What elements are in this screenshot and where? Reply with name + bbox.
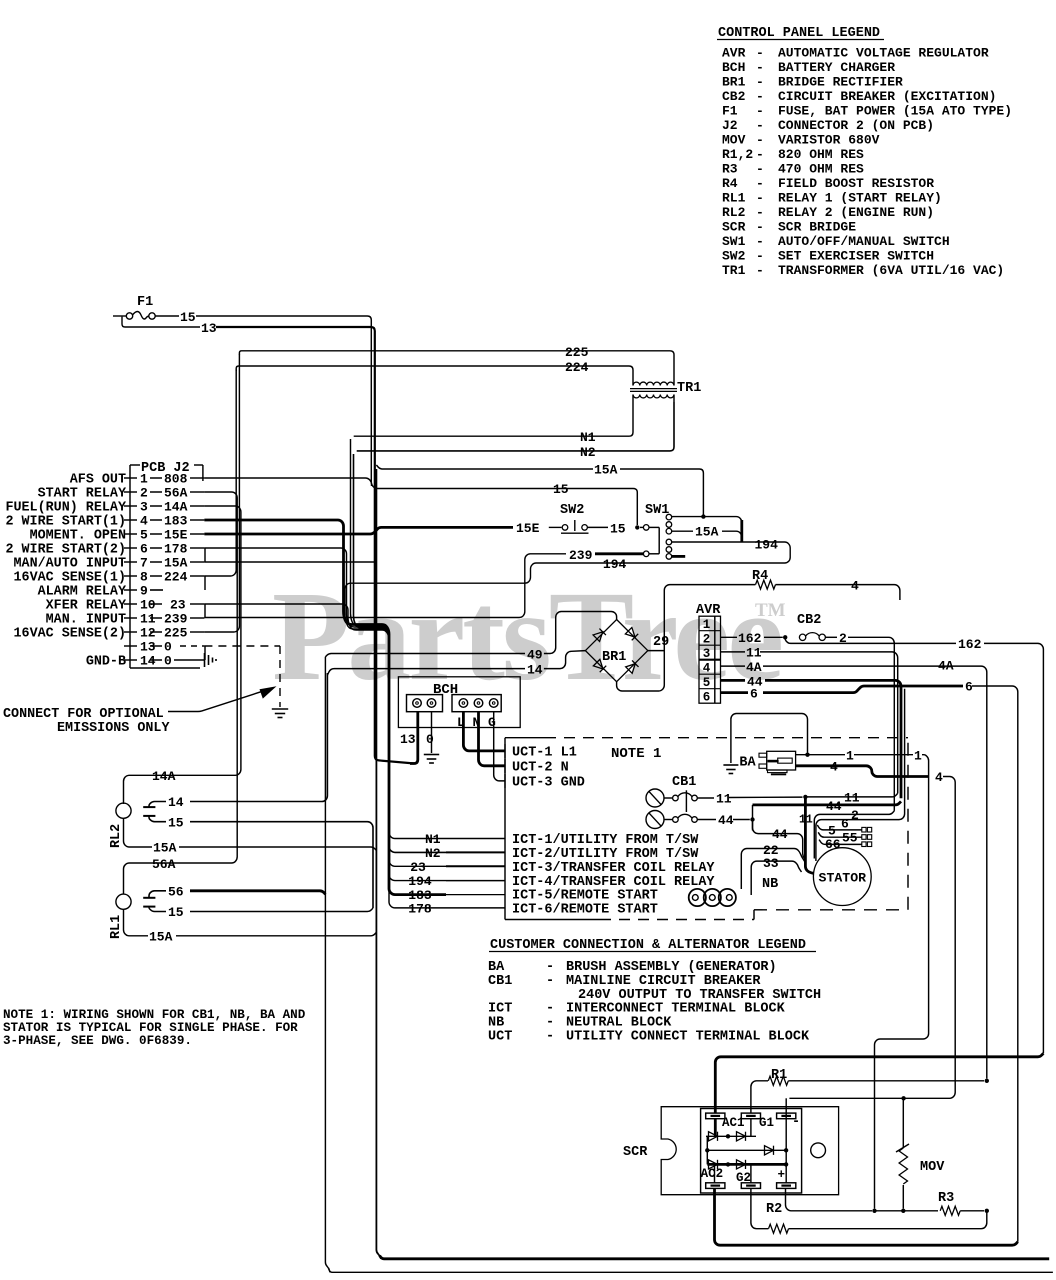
svg-text:SW1: SW1 <box>645 503 669 518</box>
wire 15E thick <box>204 527 513 534</box>
svg-text:UCT-3 GND: UCT-3 GND <box>512 775 585 790</box>
svg-text:1: 1 <box>914 748 922 763</box>
svg-text:NB: NB <box>762 877 778 892</box>
SCR terminals <box>706 1113 725 1119</box>
svg-text:-: - <box>546 1002 554 1017</box>
svg-text:CB1: CB1 <box>488 974 512 989</box>
svg-text:R3: R3 <box>722 162 738 177</box>
svg-text:F1: F1 <box>137 295 153 310</box>
svg-text:820 OHM RES: 820 OHM RES <box>778 147 864 162</box>
svg-text:0: 0 <box>164 640 172 655</box>
wire 56A <box>124 492 238 894</box>
svg-text:-: - <box>756 60 764 75</box>
ground BA <box>723 764 738 766</box>
svg-text:470 OHM RES: 470 OHM RES <box>778 162 864 177</box>
wire 49 <box>325 654 525 657</box>
SCR outer box with notch <box>661 1107 838 1195</box>
svg-text:VARISTOR 680V: VARISTOR 680V <box>778 133 880 148</box>
svg-text:ICT-3/TRANSFER COIL RELAY: ICT-3/TRANSFER COIL RELAY <box>512 861 715 876</box>
svg-text:CONNECT FOR OPTIONAL: CONNECT FOR OPTIONAL <box>3 707 164 722</box>
wire 44 CB1 <box>697 819 716 821</box>
svg-text:14: 14 <box>527 663 543 678</box>
battery charger BCH box <box>398 677 520 728</box>
svg-text:NOTE 1: WIRING SHOWN FOR CB1,: NOTE 1: WIRING SHOWN FOR CB1, NB, BA AND <box>3 1008 306 1022</box>
svg-text:224: 224 <box>565 360 589 375</box>
wire 225 pin12 <box>204 355 239 633</box>
svg-text:11: 11 <box>746 646 762 661</box>
J2 pin pair ties <box>204 548 206 562</box>
svg-text:15E: 15E <box>164 528 188 543</box>
J2 pin rows <box>124 477 137 479</box>
svg-text:-: - <box>756 191 764 206</box>
wire N1 <box>354 402 633 436</box>
wire AC2 thick <box>715 1188 1018 1245</box>
svg-text:4: 4 <box>140 514 148 529</box>
wire 178 <box>204 548 446 908</box>
svg-text:SW2: SW2 <box>560 503 584 518</box>
switch SW2 <box>562 525 568 531</box>
svg-text:-: - <box>756 162 764 177</box>
wire 15A long column thick <box>376 469 381 1259</box>
svg-text:15A: 15A <box>594 463 618 478</box>
svg-text:194: 194 <box>408 874 432 889</box>
svg-text:194: 194 <box>603 557 627 572</box>
svg-text:15E: 15E <box>516 521 540 536</box>
svg-text:13: 13 <box>201 321 217 336</box>
wire 15 RL2 <box>149 816 166 822</box>
svg-text:SCR: SCR <box>722 220 746 235</box>
svg-text:16VAC SENSE(1): 16VAC SENSE(1) <box>14 571 127 586</box>
brush assembly BA <box>767 751 796 770</box>
wire 15A pin7 <box>204 561 376 563</box>
BR1 diode bottom-left <box>593 659 606 672</box>
svg-text:11: 11 <box>140 612 156 627</box>
svg-text:7: 7 <box>140 556 148 571</box>
wire 11 stator drop thick <box>805 797 814 874</box>
wire 13 thick run to BCH <box>216 327 415 764</box>
svg-text:3-PHASE, SEE DWG. 0F6839.: 3-PHASE, SEE DWG. 0F6839. <box>3 1034 192 1048</box>
wire 55 <box>818 832 862 837</box>
svg-text:-: - <box>756 89 764 104</box>
junction 1/R3 <box>872 1209 876 1213</box>
svg-text:RL1: RL1 <box>109 915 124 939</box>
svg-text:-: - <box>756 249 764 264</box>
wire 6 AVR pin6 thick <box>721 691 749 694</box>
svg-text:15: 15 <box>180 310 196 325</box>
wire 4 from BA thick <box>796 766 929 777</box>
svg-text:BA: BA <box>739 756 756 771</box>
svg-text:GND-B: GND-B <box>86 655 126 670</box>
svg-text:-: - <box>756 176 764 191</box>
wire 56 RL1 <box>149 891 166 898</box>
svg-text:CIRCUIT BREAKER (EXCITATION): CIRCUIT BREAKER (EXCITATION) <box>778 89 996 104</box>
svg-text:23: 23 <box>170 598 186 613</box>
svg-text:SW2: SW2 <box>722 249 746 264</box>
svg-text:0: 0 <box>426 732 434 747</box>
wire 14 to BR1 <box>327 669 525 675</box>
svg-text:TM: TM <box>755 600 786 621</box>
svg-text:R4: R4 <box>752 569 768 584</box>
svg-text:-: - <box>546 1030 554 1045</box>
junction R1/4A <box>985 1079 989 1083</box>
fuse F1 <box>113 315 127 317</box>
svg-text:15A: 15A <box>153 841 177 856</box>
wire 808 <box>204 478 371 486</box>
svg-text:-: - <box>546 960 554 975</box>
wire 49/56 long column <box>325 657 330 1273</box>
svg-text:AUTO/OFF/MANUAL SWITCH: AUTO/OFF/MANUAL SWITCH <box>778 234 950 249</box>
UCT ticks <box>504 744 506 758</box>
wire 14 RL2 <box>149 802 166 808</box>
svg-text:4: 4 <box>830 760 838 775</box>
wire 15 RL1 <box>149 907 166 912</box>
svg-text:1: 1 <box>140 472 148 487</box>
wire 5 <box>817 825 862 830</box>
SCR internal diodes <box>714 1119 717 1137</box>
svg-text:6: 6 <box>140 542 148 557</box>
svg-text:3: 3 <box>140 500 148 515</box>
wire 15 from F1 <box>155 315 179 317</box>
svg-text:9: 9 <box>140 584 148 599</box>
svg-text:SW1: SW1 <box>722 234 746 249</box>
wire 14A <box>124 506 241 803</box>
wire 162 AVR pin2 <box>721 636 738 638</box>
svg-text:UCT-2 N: UCT-2 N <box>512 760 569 775</box>
wire AC1 thick <box>715 1053 1043 1113</box>
svg-text:AUTOMATIC VOLTAGE REGULATOR: AUTOMATIC VOLTAGE REGULATOR <box>778 46 989 61</box>
wire 0 dashed pin13 <box>204 645 280 647</box>
svg-text:6: 6 <box>965 680 973 695</box>
wire 15A top <box>376 465 593 469</box>
svg-text:3: 3 <box>703 647 711 661</box>
BCH terminal strip 1 <box>407 695 443 712</box>
breaker CB1 pole 1 <box>646 789 664 807</box>
svg-text:ICT-5/REMOTE START: ICT-5/REMOTE START <box>512 889 658 904</box>
svg-text:FUSE, BAT POWER (15A ATO TYPE): FUSE, BAT POWER (15A ATO TYPE) <box>778 104 1012 119</box>
svg-text:R2: R2 <box>766 1202 782 1217</box>
svg-text:4A: 4A <box>746 660 762 675</box>
svg-text:MOMENT. OPEN: MOMENT. OPEN <box>30 529 126 544</box>
svg-text:2: 2 <box>703 633 711 647</box>
svg-text:NEUTRAL BLOCK: NEUTRAL BLOCK <box>566 1016 672 1031</box>
svg-text:224: 224 <box>164 570 188 585</box>
svg-text:13: 13 <box>400 732 416 747</box>
svg-text:29: 29 <box>653 635 669 650</box>
resistor R3 <box>940 1206 960 1215</box>
svg-text:5: 5 <box>703 676 711 690</box>
svg-text:FIELD BOOST RESISTOR: FIELD BOOST RESISTOR <box>778 176 934 191</box>
svg-text:CB2: CB2 <box>797 613 821 628</box>
arrow to dashed wire <box>168 690 268 712</box>
SCR mounting hole <box>811 1143 826 1158</box>
wire 183 thick <box>204 520 446 895</box>
ground optional emissions <box>272 708 288 710</box>
wire 66 <box>819 840 862 845</box>
svg-text:MOV: MOV <box>920 1160 945 1175</box>
svg-text:2: 2 <box>851 808 859 823</box>
svg-text:15A: 15A <box>164 556 188 571</box>
svg-text:-: - <box>756 234 764 249</box>
svg-text:15: 15 <box>168 815 184 830</box>
svg-text:15: 15 <box>610 521 626 536</box>
junction 11 <box>803 795 807 799</box>
wire 13 to BCH terminal <box>410 712 418 764</box>
svg-text:R3: R3 <box>938 1191 954 1206</box>
svg-text:-: - <box>756 205 764 220</box>
svg-text:MAN/AUTO INPUT: MAN/AUTO INPUT <box>14 557 127 572</box>
svg-text:AC2: AC2 <box>701 1167 724 1181</box>
svg-text:BR1: BR1 <box>602 650 626 665</box>
wire minus <box>785 1098 787 1118</box>
resistor R2 <box>769 1224 789 1233</box>
svg-text:ICT-4/TRANSFER COIL RELAY: ICT-4/TRANSFER COIL RELAY <box>512 875 715 890</box>
svg-text:BRUSH ASSEMBLY (GENERATOR): BRUSH ASSEMBLY (GENERATOR) <box>566 960 777 975</box>
svg-text:56: 56 <box>168 885 184 900</box>
svg-text:UTILITY CONNECT TERMINAL BLOCK: UTILITY CONNECT TERMINAL BLOCK <box>566 1030 810 1045</box>
wire 239 <box>204 554 566 618</box>
svg-text:14: 14 <box>168 795 184 810</box>
wire N1 down-jog to ICT-1 <box>351 439 447 839</box>
wire 23 <box>204 604 446 866</box>
svg-text:J2: J2 <box>722 118 738 133</box>
wire 15A RL2 <box>124 818 153 847</box>
svg-text:23: 23 <box>410 860 426 875</box>
svg-text:NOTE 1: NOTE 1 <box>611 746 661 762</box>
svg-text:12: 12 <box>140 626 156 641</box>
relay RL2 coil <box>116 803 131 818</box>
svg-text:N2: N2 <box>425 846 441 861</box>
svg-text:FUEL(RUN) RELAY: FUEL(RUN) RELAY <box>5 501 126 516</box>
junction 162/CB2 <box>783 635 787 639</box>
wire 2 from CB2 <box>825 636 837 638</box>
svg-text:33: 33 <box>763 856 779 871</box>
svg-text:183: 183 <box>164 514 188 529</box>
wire 11 AVR pin3 <box>721 651 746 653</box>
svg-text:N1: N1 <box>580 430 596 445</box>
svg-text:-: - <box>546 1016 554 1031</box>
connector J2 box <box>130 464 140 466</box>
SCR inner box <box>701 1109 802 1194</box>
svg-text:8: 8 <box>140 570 148 585</box>
svg-text:TR1: TR1 <box>722 263 746 278</box>
svg-text:15A: 15A <box>695 525 719 540</box>
CB1 tie bar <box>685 790 687 812</box>
NOTE 1 box <box>505 737 545 739</box>
svg-text:178: 178 <box>164 542 188 557</box>
svg-text:CONTROL PANEL LEGEND: CONTROL PANEL LEGEND <box>718 26 880 41</box>
svg-text:1: 1 <box>846 748 854 763</box>
svg-text:4: 4 <box>703 662 711 676</box>
svg-text:SCR BRIDGE: SCR BRIDGE <box>778 220 856 235</box>
breaker CB1 pole 2 <box>646 811 664 829</box>
svg-text:44: 44 <box>772 827 788 842</box>
wire 11 fan <box>805 793 897 797</box>
wire 224 pin8 <box>204 370 236 577</box>
svg-text:RELAY 2 (ENGINE RUN): RELAY 2 (ENGINE RUN) <box>778 205 934 220</box>
svg-text:BA: BA <box>488 960 505 975</box>
svg-text:-: - <box>756 46 764 61</box>
svg-text:-: - <box>756 118 764 133</box>
svg-text:4A: 4A <box>938 659 954 674</box>
BCH L wire <box>463 712 505 751</box>
svg-text:ICT-2/UTILITY FROM T/SW: ICT-2/UTILITY FROM T/SW <box>512 847 699 862</box>
STATOR <box>813 848 871 906</box>
svg-text:UCT-1 L1: UCT-1 L1 <box>512 745 577 760</box>
svg-text:BATTERY CHARGER: BATTERY CHARGER <box>778 60 895 75</box>
svg-text:-: - <box>546 974 554 989</box>
wire 44 lower <box>753 820 807 861</box>
junction 15/SW2 <box>635 525 639 529</box>
svg-text:CB1: CB1 <box>672 775 696 790</box>
svg-text:2 WIRE START(2): 2 WIRE START(2) <box>5 543 126 558</box>
neutral block NB <box>689 889 706 906</box>
svg-text:16VAC SENSE(2): 16VAC SENSE(2) <box>14 627 127 642</box>
junction MOV bottom <box>901 1209 905 1213</box>
BR1 diode bottom-right <box>626 660 639 673</box>
breaker CB2 <box>799 634 805 640</box>
svg-text:808: 808 <box>164 472 188 487</box>
BA ground loop <box>731 714 808 764</box>
transformer TR1 <box>633 382 674 385</box>
svg-text:240V OUTPUT TO TRANSFER SWITCH: 240V OUTPUT TO TRANSFER SWITCH <box>578 988 821 1003</box>
junction BA ground loop <box>805 753 809 757</box>
svg-text:178: 178 <box>408 901 432 916</box>
svg-text:11: 11 <box>844 791 860 806</box>
varistor MOV <box>899 1148 907 1184</box>
resistor R4 <box>756 580 776 589</box>
svg-text:13: 13 <box>140 640 156 655</box>
svg-text:15A: 15A <box>149 930 173 945</box>
BR1 diode top-right <box>625 627 638 640</box>
svg-text:11: 11 <box>799 814 813 827</box>
svg-text:NB: NB <box>488 1016 504 1031</box>
BCH N wire <box>479 712 506 766</box>
wire 1 from BA <box>796 754 845 756</box>
switch SW1 throw contacts <box>666 514 672 520</box>
svg-text:44: 44 <box>826 799 842 814</box>
svg-text:ICT-1/UTILITY FROM T/SW: ICT-1/UTILITY FROM T/SW <box>512 833 699 848</box>
wire 224 <box>236 366 633 378</box>
svg-text:ALARM RELAY: ALARM RELAY <box>38 585 127 600</box>
wire 22 <box>741 849 805 890</box>
bridge rectifier BR1 <box>585 620 647 682</box>
svg-text:SCR: SCR <box>623 1145 648 1160</box>
wire 162 lower <box>785 637 956 643</box>
relay RL1 coil <box>116 894 131 909</box>
svg-text:G2: G2 <box>736 1171 751 1185</box>
wire 2 fan <box>814 811 894 859</box>
wire 15A RL1 <box>124 909 149 936</box>
wire 15 run to SW junction <box>196 316 637 525</box>
svg-text:-: - <box>756 133 764 148</box>
ground BCH <box>424 754 439 756</box>
BCH 0 wire to ground <box>431 712 433 753</box>
connector AVR <box>699 616 721 703</box>
svg-text:15: 15 <box>168 905 184 920</box>
svg-text:55: 55 <box>842 831 858 846</box>
junction MOV top <box>901 1096 905 1100</box>
svg-text:AVR: AVR <box>722 46 746 61</box>
svg-text:BRIDGE RECTIFIER: BRIDGE RECTIFIER <box>778 75 903 90</box>
wire 33 <box>751 861 801 895</box>
svg-text:RL1: RL1 <box>722 191 746 206</box>
svg-text:44: 44 <box>718 813 734 828</box>
svg-text:TRANSFORMER (6VA UTIL/16 VAC): TRANSFORMER (6VA UTIL/16 VAC) <box>778 263 1004 278</box>
svg-text:BR1: BR1 <box>722 75 746 90</box>
wire 13 left hook <box>122 317 200 327</box>
svg-text:N1: N1 <box>425 832 441 847</box>
svg-text:2: 2 <box>140 486 148 501</box>
svg-text:STATOR IS TYPICAL FOR SINGLE P: STATOR IS TYPICAL FOR SINGLE PHASE. FOR <box>3 1021 298 1035</box>
svg-text:MAINLINE CIRCUIT BREAKER: MAINLINE CIRCUIT BREAKER <box>566 974 761 989</box>
SW1 wire 15A <box>672 530 693 532</box>
wire 44 vertical <box>752 805 754 831</box>
wire 11 CB1 <box>697 797 714 799</box>
svg-text:239: 239 <box>569 548 593 563</box>
BCH terminal strip 2 <box>452 695 501 712</box>
svg-text:225: 225 <box>565 345 589 360</box>
svg-text:BCH: BCH <box>433 682 458 698</box>
BR1 diode top-left <box>593 629 606 642</box>
RL1 contact <box>143 897 155 899</box>
svg-text:TR1: TR1 <box>677 381 701 396</box>
junction R3/4A <box>985 1209 989 1213</box>
svg-text:MAN. INPUT: MAN. INPUT <box>46 613 126 628</box>
svg-text:-: - <box>756 220 764 235</box>
svg-text:2 WIRE START(1): 2 WIRE START(1) <box>5 515 126 530</box>
svg-text:N2: N2 <box>580 445 596 460</box>
svg-text:1: 1 <box>703 618 711 632</box>
wire N2 <box>357 402 674 451</box>
svg-text:194: 194 <box>755 537 779 552</box>
svg-text:225: 225 <box>164 626 188 641</box>
svg-text:4: 4 <box>851 579 859 594</box>
svg-text:CUSTOMER CONNECTION & ALTERNAT: CUSTOMER CONNECTION & ALTERNATOR LEGEND <box>490 938 806 953</box>
svg-text:XFER RELAY: XFER RELAY <box>46 599 127 614</box>
svg-text:14A: 14A <box>152 769 176 784</box>
wire 4A AVR pin4 <box>721 665 746 667</box>
svg-text:MOV: MOV <box>722 133 746 148</box>
svg-text:EMISSIONS ONLY: EMISSIONS ONLY <box>57 721 170 736</box>
svg-text:10: 10 <box>140 598 156 613</box>
junction 44 <box>750 817 754 821</box>
svg-text:5: 5 <box>140 528 148 543</box>
svg-text:6: 6 <box>750 686 758 701</box>
wire 225 <box>239 351 674 378</box>
svg-text:6: 6 <box>703 691 711 705</box>
BCH G wire <box>494 712 505 781</box>
svg-text:AFS OUT: AFS OUT <box>70 473 126 488</box>
svg-text:11: 11 <box>716 792 732 807</box>
svg-text:SET EXERCISER SWITCH: SET EXERCISER SWITCH <box>778 249 934 264</box>
svg-text:CONNECTOR 2 (ON PCB): CONNECTOR 2 (ON PCB) <box>778 118 934 133</box>
wire 6 fan <box>816 689 905 861</box>
svg-text:56A: 56A <box>152 857 176 872</box>
svg-text:G1: G1 <box>759 1116 774 1130</box>
svg-text:-: - <box>756 147 764 162</box>
svg-text:INTERCONNECT TERMINAL BLOCK: INTERCONNECT TERMINAL BLOCK <box>566 1002 786 1017</box>
svg-text:AC1: AC1 <box>722 1116 745 1130</box>
svg-text:-: - <box>792 1115 800 1130</box>
svg-text:239: 239 <box>164 612 188 627</box>
svg-text:14: 14 <box>140 654 156 669</box>
SW1 wire top <box>672 517 742 539</box>
svg-text:14A: 14A <box>164 500 188 515</box>
wire plus / R3 line <box>786 1188 873 1210</box>
SW1 stub <box>672 555 686 558</box>
svg-text:49: 49 <box>527 648 543 663</box>
svg-text:-: - <box>756 263 764 278</box>
